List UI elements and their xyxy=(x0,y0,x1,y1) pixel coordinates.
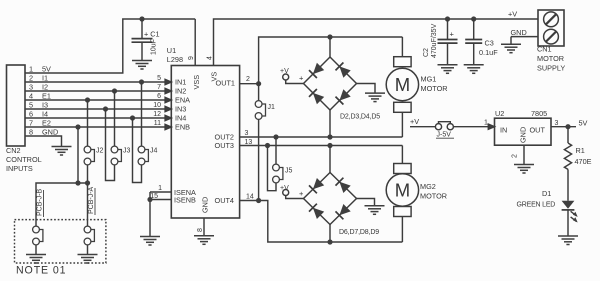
svg-text:7805: 7805 xyxy=(531,109,547,118)
svg-text:+V: +V xyxy=(280,185,289,192)
svg-text:7: 7 xyxy=(29,119,33,128)
node bus-J2 junction xyxy=(85,180,90,185)
jumper PCB-J-B xyxy=(33,226,43,245)
svg-text:I3: I3 xyxy=(42,101,48,110)
svg-text:2: 2 xyxy=(29,74,33,83)
svg-text:GND: GND xyxy=(519,127,528,143)
svg-text:+: + xyxy=(450,30,455,39)
svg-text:+ C1: + C1 xyxy=(144,30,160,39)
ground CN1 xyxy=(501,44,521,53)
ground C3 xyxy=(464,65,484,74)
wire 5V rail (pin1 to top rail A) xyxy=(25,19,195,73)
svg-text:J3: J3 xyxy=(123,148,131,155)
node E1-J2 junction xyxy=(85,97,90,102)
wire CN1 gnd stem xyxy=(510,37,512,44)
svg-text:PCB-J-B: PCB-J-B xyxy=(37,188,44,216)
svg-text:MOTOR: MOTOR xyxy=(537,54,564,63)
jumper J1 xyxy=(255,101,265,120)
svg-text:U2: U2 xyxy=(495,109,504,118)
jumper J4 xyxy=(138,146,148,165)
node I1-J4 junction xyxy=(139,79,144,84)
text U1 pin numbers right xyxy=(245,76,254,201)
wire I2 xyxy=(25,90,165,92)
wire I3 to J3 bottom (U path) xyxy=(106,109,115,181)
text PCB-J-A underline xyxy=(94,188,96,215)
svg-text:I2: I2 xyxy=(42,83,48,92)
svg-text:11: 11 xyxy=(154,120,161,127)
svg-text:D6,D7,D8,D9: D6,D7,D8,D9 xyxy=(339,229,379,236)
svg-text:6: 6 xyxy=(157,93,161,100)
wire 5V to R1 xyxy=(567,127,569,143)
svg-text:ISENB: ISENB xyxy=(174,195,196,204)
svg-text:8: 8 xyxy=(29,128,33,137)
svg-text:3: 3 xyxy=(245,130,249,137)
svg-text:OUT3: OUT3 xyxy=(215,141,234,150)
node OUT3-J5 junction xyxy=(265,143,270,148)
ground PCB-J-A xyxy=(78,255,98,264)
node OUT1 junction xyxy=(256,81,261,86)
svg-text:MG2: MG2 xyxy=(420,182,436,191)
svg-text:E2: E2 xyxy=(42,119,51,128)
svg-text:4: 4 xyxy=(207,56,214,60)
wire OUT2 pin 3 xyxy=(240,136,403,138)
wire I3 xyxy=(25,108,165,110)
text CN1 designator xyxy=(537,45,565,73)
ground bridge2 xyxy=(365,206,385,215)
node ISEN junction xyxy=(147,197,152,202)
svg-text:9: 9 xyxy=(188,56,195,60)
svg-text:2: 2 xyxy=(512,154,519,158)
connector CN2 body xyxy=(7,65,26,146)
pin arrow U2 IN xyxy=(488,124,494,129)
svg-text:13: 13 xyxy=(245,139,253,146)
svg-text:7: 7 xyxy=(157,84,161,91)
node U2 out junction xyxy=(565,124,570,129)
svg-text:IN1: IN1 xyxy=(175,78,186,87)
ground U1 xyxy=(194,236,214,245)
svg-text:IN2: IN2 xyxy=(175,87,186,96)
wire U2 OUT xyxy=(551,126,576,128)
svg-text:INPUTS: INPUTS xyxy=(6,164,33,173)
svg-text:L298: L298 xyxy=(167,55,183,64)
svg-text:M: M xyxy=(395,180,410,201)
ground C2 xyxy=(438,65,458,74)
wire bridge2 top stem xyxy=(329,146,331,173)
svg-text:J2: J2 xyxy=(96,148,104,155)
svg-text:MOTOR: MOTOR xyxy=(421,84,448,93)
svg-text:VS: VS xyxy=(210,72,219,82)
svg-text:PCB-J-A: PCB-J-A xyxy=(88,186,95,214)
diode D9 xyxy=(336,204,351,219)
svg-text:I1: I1 xyxy=(42,74,48,83)
svg-text:R1: R1 xyxy=(576,146,585,155)
svg-text:D1: D1 xyxy=(542,189,551,198)
wire CN1 GND xyxy=(511,36,538,38)
ground CN2 xyxy=(52,147,72,156)
svg-text:12: 12 xyxy=(153,111,161,118)
wire I2 drop to J3 xyxy=(114,91,116,146)
wire ISEN join xyxy=(149,192,151,236)
diode D8 xyxy=(309,204,324,219)
svg-text:CN2: CN2 xyxy=(6,146,21,155)
svg-text:GREEN LED: GREEN LED xyxy=(517,201,556,208)
node I3 junction xyxy=(103,106,108,111)
wire J-5V to U2 xyxy=(453,126,489,128)
node I2-J3 junction xyxy=(112,88,117,93)
capacitor C2 xyxy=(438,19,458,64)
svg-text:C3: C3 xyxy=(485,39,494,48)
connector CN1 body xyxy=(538,10,564,46)
svg-text:1: 1 xyxy=(29,65,33,74)
svg-text:J5: J5 xyxy=(285,168,293,175)
wire ISENA xyxy=(150,191,171,193)
wire PCB-J-B to ground xyxy=(35,245,37,254)
text CN2 net names xyxy=(42,65,58,137)
svg-text:3: 3 xyxy=(555,120,559,127)
svg-text:14: 14 xyxy=(246,194,254,201)
svg-text:ENA: ENA xyxy=(175,96,190,105)
wire J1 to OUT4 xyxy=(258,119,260,200)
text PCB-J-B underline xyxy=(43,190,45,217)
svg-text:3: 3 xyxy=(29,83,33,92)
svg-text:M: M xyxy=(395,74,410,95)
svg-text:MOTOR: MOTOR xyxy=(420,192,447,201)
diode D7 xyxy=(336,178,351,193)
wire OUT4 pin 14 xyxy=(240,201,403,243)
wire J2 bottom to bus xyxy=(87,165,89,183)
node OUT3-bridge2 junction xyxy=(327,143,332,148)
op IC U1 body xyxy=(171,66,239,219)
wire bridge1 top stem xyxy=(329,37,331,57)
wire ISENB xyxy=(150,199,171,201)
wire OUT3 pin 13 xyxy=(240,145,403,147)
svg-text:J-5V: J-5V xyxy=(437,132,452,139)
svg-text:IN3: IN3 xyxy=(175,105,186,114)
ground PCB-J-B xyxy=(26,255,46,264)
wire PCB-J-A to ground xyxy=(87,245,89,254)
terminal +V bridge1 xyxy=(283,74,304,84)
capacitor C3 xyxy=(465,19,482,64)
node I4 junction xyxy=(130,115,135,120)
wire VS riser pin 4 and +V rail B xyxy=(214,19,539,66)
svg-text:+: + xyxy=(299,189,304,198)
svg-text:CONTROL: CONTROL xyxy=(6,155,42,164)
pin arrow IN3 xyxy=(165,106,171,111)
pin arrow IN2 xyxy=(165,88,171,93)
wire R1 to D1 xyxy=(567,169,569,200)
pin arrow ENA xyxy=(165,97,171,102)
svg-text:2: 2 xyxy=(246,76,250,83)
svg-text:10: 10 xyxy=(153,102,161,109)
svg-text:GND: GND xyxy=(42,128,58,137)
diode D2 xyxy=(309,63,324,78)
wire jumper bus y183 xyxy=(36,183,88,226)
node E2 junction xyxy=(75,124,80,129)
svg-text:6: 6 xyxy=(29,110,33,119)
svg-text:5V: 5V xyxy=(579,119,588,128)
node C1 tap junction xyxy=(139,16,144,21)
wire I4 xyxy=(25,117,165,119)
svg-text:5: 5 xyxy=(29,101,33,110)
svg-text:D2,D3,D4,D5: D2,D3,D4,D5 xyxy=(340,114,380,121)
jumper J3 xyxy=(111,146,121,165)
resistor R1 xyxy=(564,143,571,169)
jumper J2 xyxy=(84,146,94,165)
svg-text:8: 8 xyxy=(197,228,204,232)
ground bridge1 xyxy=(365,93,385,102)
svg-text:J1: J1 xyxy=(268,104,276,111)
svg-text:NOTE 01: NOTE 01 xyxy=(16,265,66,277)
node OUT2-bridge1 junction xyxy=(327,134,332,139)
svg-text:15: 15 xyxy=(150,193,158,200)
diode D3 xyxy=(336,63,351,78)
svg-text:GND: GND xyxy=(201,197,210,213)
svg-text:5: 5 xyxy=(157,75,161,82)
node C2 tap xyxy=(445,16,450,21)
svg-text:+V: +V xyxy=(280,68,289,75)
svg-text:1: 1 xyxy=(484,120,488,127)
wire E1 drop to J2 xyxy=(87,100,89,146)
jumper PCB-J-A xyxy=(84,226,94,245)
ground U2 xyxy=(514,165,534,174)
svg-text:1: 1 xyxy=(158,185,162,192)
wire J5 bottom to OUT3 xyxy=(268,146,277,191)
motor MG1 xyxy=(386,37,418,137)
ground D1 xyxy=(558,236,578,245)
diode D5 xyxy=(336,89,351,104)
svg-text:4: 4 xyxy=(29,92,33,101)
svg-text:GND: GND xyxy=(511,28,527,37)
wire D1 to ground xyxy=(567,210,569,236)
wire bridge1 right to ground xyxy=(357,84,376,93)
wire OUT2 drop to J5 xyxy=(275,137,277,164)
svg-text:+V: +V xyxy=(508,10,517,19)
wire I1 xyxy=(25,81,165,83)
wire +V feed to J-5V xyxy=(410,126,435,128)
ground C1 xyxy=(132,61,152,70)
svg-text:MG1: MG1 xyxy=(421,75,437,84)
note box dashed xyxy=(15,220,106,263)
diode D4 xyxy=(309,89,324,104)
node bus-E2 junction xyxy=(75,180,80,185)
svg-text:I4: I4 xyxy=(42,110,48,119)
text CN2 pin numbers xyxy=(29,65,33,137)
svg-text:IN: IN xyxy=(500,126,507,135)
svg-text:E1: E1 xyxy=(42,92,51,101)
ground ISEN xyxy=(140,237,160,246)
pin arrow ENB xyxy=(165,124,171,129)
svg-text:U1: U1 xyxy=(167,46,176,55)
wire OUT1 pin 2 xyxy=(240,83,259,85)
svg-text:OUT: OUT xyxy=(530,126,546,135)
svg-text:10uF: 10uF xyxy=(151,39,158,55)
svg-text:J4: J4 xyxy=(150,148,158,155)
svg-text:0.1uF: 0.1uF xyxy=(479,48,498,57)
svg-text:SUPPLY: SUPPLY xyxy=(537,64,565,73)
diode D6 xyxy=(309,178,324,193)
node OUT2-J5 junction xyxy=(273,134,278,139)
svg-text:5V: 5V xyxy=(42,65,51,74)
text U1 pin numbers left xyxy=(150,75,162,200)
jumper J-5V xyxy=(435,122,453,130)
wire bridge2 diamond xyxy=(304,173,357,225)
pin arrow IN1 xyxy=(165,79,171,84)
text CN2 designator xyxy=(6,146,42,173)
svg-text:CN1: CN1 xyxy=(537,45,552,54)
node OUT4 junction xyxy=(256,198,261,203)
node bridge2 bottom junction xyxy=(327,239,332,244)
motor MG2 xyxy=(386,146,418,243)
svg-text:+V: +V xyxy=(410,117,419,126)
wire bridge1 diamond xyxy=(304,57,357,110)
wire U2 GND pin 2 xyxy=(523,145,525,164)
jumper J5 xyxy=(273,164,283,183)
svg-text:OUT4: OUT4 xyxy=(215,196,234,205)
wire OUT1 riser to bridge frame top xyxy=(259,37,403,84)
svg-text:ENB: ENB xyxy=(175,123,190,132)
terminal +V bridge2 xyxy=(283,190,304,199)
svg-text:IN4: IN4 xyxy=(175,114,186,123)
wire E2 drop xyxy=(77,127,79,183)
wire VSS riser pin 9 xyxy=(194,19,196,66)
wire I4 to J4 bottom (U path) xyxy=(133,118,142,183)
wire bridge1 bottom stem xyxy=(329,110,331,137)
wire bridge2 right to ground xyxy=(357,199,375,206)
svg-text:470E: 470E xyxy=(575,157,592,166)
svg-text:+: + xyxy=(299,74,304,83)
svg-text:VSS: VSS xyxy=(192,75,201,90)
wire OUT1 drop to J1 xyxy=(258,84,260,101)
wire I1 drop to J4 xyxy=(141,82,143,146)
pin arrow IN4 xyxy=(165,115,171,120)
wire E1 xyxy=(25,99,165,101)
wire U1 GND pin 8 xyxy=(203,218,205,235)
wire E2 xyxy=(25,126,165,128)
svg-text:470uF/35V: 470uF/35V xyxy=(431,23,438,58)
wire J2 to PCB-J-A xyxy=(87,183,89,226)
text U1 pin names xyxy=(174,78,196,205)
capacitor C1 xyxy=(132,19,153,60)
node C3 tap xyxy=(471,16,476,21)
text J-5V underline xyxy=(436,137,454,139)
svg-text:C2: C2 xyxy=(423,48,430,57)
wire GND pin8 xyxy=(25,136,62,146)
diode D1 LED xyxy=(562,201,578,223)
node bridge1 top junction xyxy=(327,34,332,39)
regulator U2 body xyxy=(495,118,552,145)
wire bridge2 bottom stem xyxy=(329,225,331,243)
